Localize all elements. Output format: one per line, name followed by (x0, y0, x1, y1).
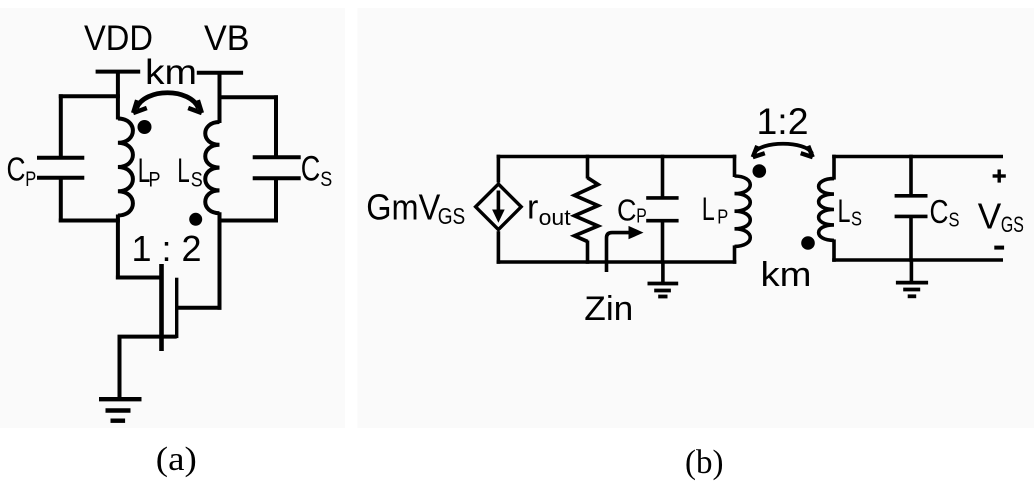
transistor M1 channel bar (175, 278, 178, 338)
arrowhead left (b) (753, 146, 765, 157)
svg-text:km: km (145, 53, 197, 92)
coupling arc (b) (754, 144, 812, 154)
svg-text:L: L (177, 152, 190, 190)
current source stub bottom (497, 231, 501, 264)
wire CS branch lower (274, 178, 278, 222)
wire VDD stub (116, 70, 120, 120)
svg-text:P: P (717, 206, 728, 228)
polarity dot LP (a) (138, 120, 152, 134)
wire source horizontal (118, 335, 177, 339)
svg-text:P: P (636, 205, 647, 227)
wire CP branch lower (59, 178, 63, 223)
svg-text:S: S (191, 169, 203, 192)
svg-text:S: S (320, 168, 332, 191)
svg-text:GmV: GmV (366, 187, 440, 228)
wire CS branch upper (274, 95, 278, 159)
svg-text:C: C (617, 193, 637, 228)
wire VB stub (218, 71, 222, 123)
supply bar VDD (96, 70, 141, 74)
arrowhead left km (a) (133, 100, 147, 113)
svg-text:r: r (527, 189, 538, 227)
inductor LS (b) wire top (832, 155, 836, 180)
resistor rout stub top (586, 155, 590, 179)
svg-text:C: C (301, 150, 321, 189)
svg-text:S: S (949, 210, 960, 232)
svg-text:VB: VB (204, 19, 250, 58)
wire top rail left section (497, 155, 737, 159)
ground below CS (b) (910, 260, 914, 283)
wire top rail right section (832, 155, 1003, 159)
arrowhead right km (a) (188, 100, 202, 113)
ground below CP (b) (661, 262, 665, 284)
coupling arc km (a) (136, 93, 198, 109)
current source GmVGS stub top (497, 155, 501, 183)
svg-text:P: P (149, 169, 161, 192)
wire LP bottom to gate (116, 215, 120, 280)
svg-text:(a): (a) (156, 441, 197, 478)
wire CP branch upper (59, 94, 63, 159)
ground (a) (99, 397, 142, 401)
svg-text:km: km (761, 256, 812, 294)
wire CS bottom (218, 219, 279, 223)
inductor LP primary coil (a) (118, 119, 133, 216)
wire CP bottom (59, 219, 120, 223)
wire drain horizontal (177, 306, 222, 310)
capacitor CS (b) stub top (909, 155, 913, 196)
plus terminal (993, 174, 1006, 177)
transistor M1 gate bar (159, 264, 164, 351)
capacitor CP (b) stub bottom (661, 221, 665, 264)
svg-text:V: V (978, 196, 1002, 237)
svg-text:S: S (851, 209, 862, 231)
svg-text:C: C (930, 193, 949, 230)
svg-text:1 : 2: 1 : 2 (132, 228, 202, 269)
wire CS top (218, 95, 279, 99)
capacitor CP (b) plates (646, 196, 678, 200)
wire gate horizontal (116, 276, 162, 280)
svg-text:P: P (25, 168, 36, 191)
wire CP top (59, 94, 120, 98)
svg-text:GS: GS (438, 203, 466, 229)
wire source drop (118, 337, 122, 399)
arrow Zin (607, 233, 631, 272)
polarity dot LP (b) (753, 164, 767, 178)
wire bottom rail right section (832, 258, 1003, 262)
capacitor CP (a) (37, 156, 84, 160)
svg-text:GS: GS (1001, 212, 1024, 237)
capacitor CS (b) stub bottom (909, 216, 913, 261)
supply bar VB (197, 71, 243, 75)
capacitor CS (a) (253, 155, 301, 159)
inductor LP (b) coil (735, 176, 751, 246)
capacitor CP (b) stub top (661, 155, 665, 198)
inductor LS (b) coil (819, 179, 834, 241)
svg-text:out: out (539, 205, 571, 230)
svg-text:L: L (838, 193, 851, 229)
inductor LP (b) wire top (733, 155, 737, 177)
capacitor CS (b) plates (895, 194, 928, 198)
svg-text:Zin: Zin (584, 290, 633, 328)
svg-text:C: C (7, 151, 26, 188)
svg-text:L: L (702, 191, 715, 227)
current source GmVGS diamond (476, 184, 522, 230)
inductor LS secondary coil (a) (205, 122, 219, 213)
inductor LP (b) wire bottom (733, 245, 737, 263)
wire LS bottom to drain (218, 212, 222, 310)
svg-text:(b): (b) (685, 444, 724, 481)
resistor rout stub bottom (586, 241, 590, 264)
wire bottom rail left section (497, 260, 737, 264)
polarity dot LS (b) (801, 236, 815, 250)
arrowhead right (b) (801, 146, 813, 157)
current source arrow (497, 191, 501, 213)
svg-text:1:2: 1:2 (757, 101, 809, 142)
inductor LS (b) wire bottom (832, 239, 836, 261)
resistor rout zigzag (575, 178, 599, 242)
minus terminal (994, 246, 1004, 250)
polarity dot LS (a) (189, 213, 202, 226)
svg-text:VDD: VDD (84, 19, 153, 58)
